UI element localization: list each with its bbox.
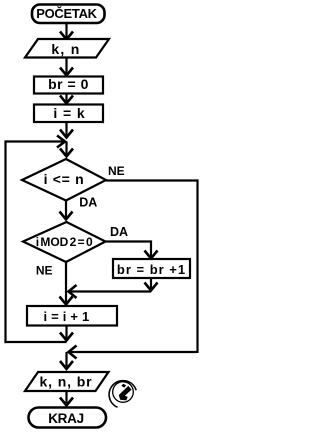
process br = br +1 bbox=[113, 259, 190, 278]
terminator POČETAK bbox=[32, 5, 105, 24]
svg-text:NE: NE bbox=[108, 164, 125, 178]
decision i <= n bbox=[22, 159, 106, 201]
wire: k,n,br to KRAJ bbox=[60, 391, 73, 406]
label NE (decision 2) bbox=[36, 264, 53, 278]
io parallelogram k, n bbox=[25, 39, 109, 58]
wire: junction down into k,n,br bbox=[60, 352, 73, 369]
process i = k bbox=[34, 105, 103, 123]
wire: POČETAK to k,n bbox=[60, 24, 73, 40]
svg-text:i = k: i = k bbox=[53, 105, 85, 121]
io parallelogram k, n, br bbox=[25, 372, 109, 391]
svg-text:DA: DA bbox=[110, 225, 128, 239]
wire: NE branch right and down to bottom return bbox=[69, 179, 198, 358]
wire: junction to decision i<=n bbox=[60, 142, 73, 157]
print/pen icon beside k,n,br bbox=[109, 381, 136, 408]
decision i MOD 2 = 0 bbox=[23, 222, 106, 262]
wire: k,n to br=0 bbox=[60, 58, 73, 76]
svg-text:KRAJ: KRAJ bbox=[48, 411, 84, 426]
terminator KRAJ bbox=[29, 408, 107, 428]
svg-text:k, n, br: k, n, br bbox=[39, 373, 92, 389]
svg-text:POČETAK: POČETAK bbox=[36, 6, 97, 21]
svg-text:k, n: k, n bbox=[51, 41, 80, 57]
svg-text:i = i + 1: i = i + 1 bbox=[44, 309, 90, 324]
wire: decision1 DA down to decision2 bbox=[60, 201, 73, 220]
svg-text:iMOD2=0: iMOD2=0 bbox=[36, 235, 93, 249]
svg-text:br = 0: br = 0 bbox=[48, 76, 89, 92]
wire: decision2 DA right into br=br+1 bbox=[106, 240, 158, 258]
process br = 0 bbox=[34, 76, 103, 94]
svg-text:i <= n: i <= n bbox=[44, 171, 85, 187]
wire: loop-back entry arrow into junction bbox=[6, 136, 66, 148]
wire: loop-back left and up bbox=[4, 140, 66, 343]
label NE (decision 1) bbox=[108, 164, 125, 178]
process i = i + 1 bbox=[27, 306, 117, 326]
wire: i=k down to junction bbox=[60, 122, 73, 138]
label DA (decision 1) bbox=[79, 196, 97, 210]
wire: br=br+1 down and left to main line bbox=[69, 278, 158, 298]
wire: i=i+1 down to loop-back corner bbox=[60, 326, 73, 341]
label DA (decision 2) bbox=[110, 225, 128, 239]
wire: br=0 to i=k bbox=[60, 94, 73, 104]
svg-text:NE: NE bbox=[36, 264, 53, 278]
svg-text:br = br +1: br = br +1 bbox=[117, 262, 186, 277]
svg-text:DA: DA bbox=[79, 196, 97, 210]
wire: decision2 NE down into i=i+1 bbox=[60, 262, 73, 305]
